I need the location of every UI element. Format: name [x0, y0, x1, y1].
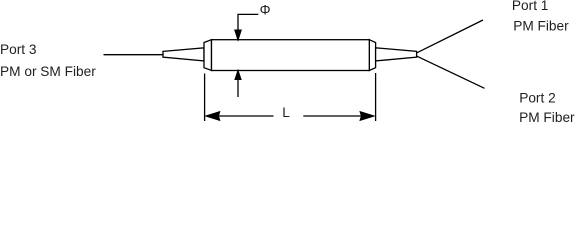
svg-text:Port 3: Port 3 [0, 42, 37, 57]
svg-text:PM Fiber: PM Fiber [519, 110, 575, 124]
svg-text:Port 1: Port 1 [512, 0, 549, 13]
wire: Port 3 fiber lead [104, 54, 165, 56]
svg-text:PM or SM Fiber: PM or SM Fiber [0, 64, 96, 79]
diameter lower arrow shaft [237, 79, 239, 97]
left end cap [204, 40, 212, 71]
wire: Port 2 fiber lead [417, 56, 485, 88]
svg-text:Φ: Φ [260, 2, 271, 17]
arrowhead: diameter top (points down) [235, 30, 242, 41]
arrowhead: L dimension left (points left) [206, 112, 220, 121]
L dimension line right segment [303, 115, 361, 117]
svg-text:L: L [282, 105, 290, 120]
right boot cone [376, 48, 417, 61]
wire: Port 1 fiber lead [417, 20, 483, 53]
L dimension line left segment [219, 115, 274, 117]
svg-text:PM Fiber: PM Fiber [513, 18, 569, 33]
L dimension extension line right [375, 73, 377, 121]
svg-text:Port 2: Port 2 [519, 90, 556, 105]
L dimension extension line left [204, 74, 206, 122]
arrowhead: L dimension right (points right) [360, 112, 374, 121]
diameter leader line to phi label [238, 14, 258, 30]
left boot cone [163, 48, 204, 61]
right end cap [369, 40, 375, 71]
arrowhead: diameter bottom (points up) [235, 70, 241, 80]
cylinder body [212, 40, 370, 71]
